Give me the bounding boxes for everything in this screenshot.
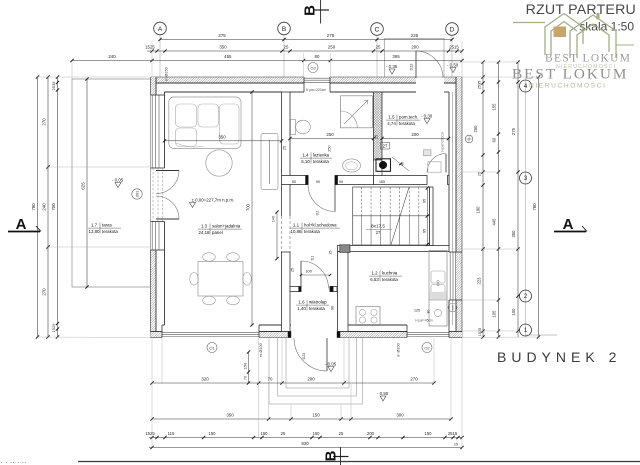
svg-text:350: 350 xyxy=(218,135,226,140)
svg-text:115: 115 xyxy=(168,431,175,436)
svg-text:NIERUCHOMOŚCI: NIERUCHOMOŚCI xyxy=(529,81,607,90)
dim 150/70 entrance xyxy=(248,352,250,383)
exterior wall: top (insulated, hatched) xyxy=(151,77,305,83)
window O3 in top wall xyxy=(304,77,330,79)
svg-text:D2: D2 xyxy=(316,211,320,216)
svg-text:RZUT PARTERU: RZUT PARTERU xyxy=(526,2,636,18)
stair width dim 95/95 xyxy=(426,186,429,189)
right dim chain 3 xyxy=(517,62,519,337)
svg-text:m Ø150: m Ø150 xyxy=(165,67,169,81)
svg-text:80: 80 xyxy=(427,310,431,314)
svg-text:150: 150 xyxy=(425,431,433,436)
svg-text:2515: 2515 xyxy=(448,431,458,436)
door D2 leaf and swing (hall->bathroom) xyxy=(334,185,336,212)
svg-text:190: 190 xyxy=(476,206,481,214)
svg-text:625: 625 xyxy=(81,182,86,190)
stair break line (diagonal) xyxy=(391,188,409,245)
svg-text:25: 25 xyxy=(329,251,333,255)
staircase 8x17,5 xyxy=(353,187,430,245)
svg-text:27: 27 xyxy=(376,230,381,235)
svg-text:H par=45cm: H par=45cm xyxy=(415,319,433,323)
svg-text:25: 25 xyxy=(281,431,286,436)
svg-text:200: 200 xyxy=(367,431,375,436)
svg-text:OB1: OB1 xyxy=(136,191,140,198)
exterior wall: right xyxy=(456,77,462,338)
corner sofa in salon xyxy=(169,97,241,149)
dimension row 3 (top) xyxy=(72,60,462,62)
svg-text:375: 375 xyxy=(218,33,226,38)
terrace dim 625 xyxy=(86,79,88,287)
svg-text:250: 250 xyxy=(328,145,332,151)
svg-text:2535: 2535 xyxy=(51,81,56,91)
svg-text:90: 90 xyxy=(339,180,343,184)
svg-text:taras: taras xyxy=(102,223,113,228)
window label O1 xyxy=(207,343,217,353)
svg-text:240: 240 xyxy=(108,54,116,59)
svg-text:terakota: terakota xyxy=(102,229,118,234)
svg-text:O1: O1 xyxy=(209,345,215,350)
bottom border line xyxy=(78,461,640,463)
svg-text:275: 275 xyxy=(511,127,516,135)
chimney duct wall (crosshatched) xyxy=(374,92,383,160)
svg-text:± 0,00=227,7m n.p.m.: ± 0,00=227,7m n.p.m. xyxy=(192,198,235,203)
svg-text:25: 25 xyxy=(376,45,381,50)
svg-text:terakota: terakota xyxy=(382,277,398,282)
interior wall: bathroom/pom.tech bottom (H1) xyxy=(282,176,309,185)
dimension row 2 (top) xyxy=(147,50,462,52)
svg-text:1525: 1525 xyxy=(145,45,155,50)
svg-text:25: 25 xyxy=(291,268,295,272)
svg-text:300: 300 xyxy=(396,413,404,418)
svg-text:1.3: 1.3 xyxy=(201,224,208,229)
svg-text:46: 46 xyxy=(401,162,405,166)
svg-text:320: 320 xyxy=(201,377,209,382)
svg-text:150: 150 xyxy=(312,413,320,418)
axis markers 1-4 (right) xyxy=(525,80,527,336)
entrance canopy outline (top right) xyxy=(385,39,444,78)
furnace in pom.tech xyxy=(376,159,391,172)
svg-text:350: 350 xyxy=(226,413,234,418)
svg-text:105: 105 xyxy=(492,310,497,318)
svg-text:terakota: terakota xyxy=(309,306,325,311)
section marker B (top) xyxy=(320,0,322,24)
left extension lines xyxy=(36,76,150,78)
svg-text:terakota: terakota xyxy=(399,121,415,126)
dim 46 with leader xyxy=(392,157,409,171)
svg-text:- 0,30: - 0,30 xyxy=(421,114,433,119)
svg-text:BEST LOKUM: BEST LOKUM xyxy=(545,53,631,65)
entrance steps (nested) xyxy=(285,338,287,388)
svg-text:BEST LOKUM: BEST LOKUM xyxy=(512,66,628,83)
toilet in bathroom xyxy=(291,120,296,135)
door jambs, entrance DZ4 xyxy=(288,332,291,338)
svg-text:200: 200 xyxy=(307,377,315,382)
svg-text:8x17,5: 8x17,5 xyxy=(371,224,385,229)
bottom dim row 4 total 930 xyxy=(149,447,462,449)
svg-text:6,10: 6,10 xyxy=(301,159,310,164)
svg-text:250: 250 xyxy=(473,125,478,133)
svg-text:4,74: 4,74 xyxy=(387,121,396,126)
kitchen counter with sink xyxy=(429,251,447,327)
svg-text:1.5: 1.5 xyxy=(388,115,395,120)
svg-text:- 0,50: - 0,50 xyxy=(377,391,389,396)
balcony door OB1 opening (dashed reveal) xyxy=(152,168,154,222)
svg-text:B: B xyxy=(282,26,286,33)
svg-text:780: 780 xyxy=(532,203,537,211)
stair side wall (V4) xyxy=(430,187,434,246)
svg-text:15: 15 xyxy=(454,443,458,447)
svg-text:kuchnia: kuchnia xyxy=(382,271,398,276)
svg-text:1525: 1525 xyxy=(478,328,482,336)
svg-text:hol+kl.schodowa: hol+kl.schodowa xyxy=(304,223,337,228)
door jambs, bathroom door D2 xyxy=(306,176,309,185)
svg-text:275: 275 xyxy=(327,33,335,38)
svg-text:O5: O5 xyxy=(451,305,455,309)
window label OB1 xyxy=(132,189,142,199)
svg-text:O2: O2 xyxy=(424,345,430,350)
svg-text:395: 395 xyxy=(392,54,400,59)
svg-text:90: 90 xyxy=(331,306,335,310)
svg-text:wiatrolap: wiatrolap xyxy=(309,300,327,305)
svg-text:D1: D1 xyxy=(311,256,315,261)
svg-text:150: 150 xyxy=(313,431,321,436)
svg-text:455: 455 xyxy=(224,54,232,59)
svg-text:A: A xyxy=(16,216,27,233)
svg-text:- 0,05: - 0,05 xyxy=(112,178,124,183)
right extension lines xyxy=(448,61,520,63)
salon-hall passage (dashed opening) xyxy=(281,216,283,252)
exterior wall: bottom xyxy=(151,332,163,338)
stair newel column xyxy=(340,245,350,253)
svg-text:1.2: 1.2 xyxy=(371,271,378,276)
terrace outline (1.7 taras) xyxy=(72,79,151,287)
svg-text:25: 25 xyxy=(375,135,379,139)
svg-text:B: B xyxy=(323,450,340,461)
svg-text:780: 780 xyxy=(31,203,36,211)
svg-text:H par=230cm: H par=230cm xyxy=(441,132,445,152)
logo window square (tan) xyxy=(554,27,567,38)
axis marker C (top) xyxy=(371,23,384,36)
svg-text:1.1: 1.1 xyxy=(293,223,300,228)
window O1 in bottom wall xyxy=(162,332,259,334)
bottom dim row 3 xyxy=(149,437,462,439)
svg-text:445: 445 xyxy=(492,218,497,226)
svg-text:DZ2: DZ2 xyxy=(410,64,414,71)
svg-text:140: 140 xyxy=(271,215,276,222)
svg-text:D: D xyxy=(450,26,455,33)
window O5 in right wall (kitchen) xyxy=(449,252,451,300)
svg-text:1.7: 1.7 xyxy=(91,223,98,228)
wall with door D1 (hall/wiatrolap) xyxy=(290,287,301,292)
svg-text:24,18: 24,18 xyxy=(199,230,211,235)
svg-text:O3: O3 xyxy=(310,65,316,70)
svg-text:150: 150 xyxy=(243,362,248,369)
boiler / equipment pom.tech xyxy=(424,150,432,156)
svg-text:700: 700 xyxy=(51,203,56,211)
svg-text:270: 270 xyxy=(42,118,47,126)
svg-text:1.6: 1.6 xyxy=(298,300,305,305)
kitchen stove 4 burners xyxy=(356,307,380,326)
svg-text:155: 155 xyxy=(492,103,497,111)
salon interior dim 700 xyxy=(251,92,253,325)
svg-text:95: 95 xyxy=(422,229,427,233)
window in left wall (lower) xyxy=(151,222,153,251)
svg-text:pom.tech.: pom.tech. xyxy=(399,115,418,120)
pom.tech dim 200 xyxy=(382,138,449,140)
svg-text:m Ø100: m Ø100 xyxy=(397,343,401,357)
interior wall: salon/bathroom (V1) xyxy=(282,92,291,176)
svg-text:1.4: 1.4 xyxy=(302,153,309,158)
svg-text:25: 25 xyxy=(282,146,287,150)
svg-text:skala 1:50: skala 1:50 xyxy=(579,20,634,34)
washbasin in bathroom xyxy=(343,159,361,172)
window in left wall (upper) xyxy=(151,95,153,168)
right dim chain 1 xyxy=(482,62,484,337)
bathroom dim 250 xyxy=(290,138,374,140)
svg-text:200: 200 xyxy=(411,132,419,137)
window label O2 xyxy=(422,343,432,353)
svg-text:- 0,35: - 0,35 xyxy=(386,64,398,69)
svg-text:25: 25 xyxy=(478,172,482,176)
svg-text:250: 250 xyxy=(326,132,334,137)
exterior wall: left xyxy=(151,77,157,95)
axis dim line A-B-C-D xyxy=(160,39,452,41)
svg-text:250: 250 xyxy=(328,45,336,50)
svg-text:150: 150 xyxy=(261,431,269,436)
extension lines top xyxy=(71,62,73,79)
window O2 in bottom wall xyxy=(407,332,449,334)
svg-text:80: 80 xyxy=(315,54,320,59)
svg-text:70: 70 xyxy=(268,377,273,382)
svg-text:terakota: terakota xyxy=(304,229,320,234)
axis marker A (top) xyxy=(154,22,167,35)
svg-text:lazienka: lazienka xyxy=(313,153,330,158)
logo house outlines (green) xyxy=(513,13,634,58)
axis marker B (top) xyxy=(278,22,291,35)
svg-text:2515: 2515 xyxy=(449,45,459,50)
svg-text:panel: panel xyxy=(212,230,223,235)
left dim chain 270/240/270 xyxy=(47,77,49,337)
svg-text:27: 27 xyxy=(383,144,388,149)
bottom dim row 2 xyxy=(152,418,451,420)
svg-text:240: 240 xyxy=(42,203,47,211)
salon interior dim 350 xyxy=(165,140,282,142)
svg-text:rs Ø100: rs Ø100 xyxy=(259,343,263,357)
window O3 label circle xyxy=(308,63,318,73)
passage dim 140 xyxy=(276,212,278,259)
right dim chain 2 xyxy=(498,62,500,337)
svg-text:10,86: 10,86 xyxy=(291,229,303,234)
svg-text:225: 225 xyxy=(411,33,419,38)
svg-text:350: 350 xyxy=(219,45,227,50)
axis marker D (top) xyxy=(446,23,459,36)
bottom extension lines xyxy=(151,338,153,448)
svg-text:165: 165 xyxy=(379,180,385,184)
svg-text:270: 270 xyxy=(42,288,47,296)
svg-text:salon+jadalnia: salon+jadalnia xyxy=(212,224,241,229)
right dim chain total 780 xyxy=(538,77,540,337)
duct vent label 27 xyxy=(381,143,390,150)
svg-text:70: 70 xyxy=(244,376,248,380)
window label O5 xyxy=(448,303,457,312)
interior wall: salon lower (V2) xyxy=(282,252,291,332)
svg-text:A: A xyxy=(563,216,574,233)
door to pom.tech leaf and swing xyxy=(445,154,447,173)
floor drain symbol xyxy=(465,135,473,143)
svg-text:13,80: 13,80 xyxy=(89,229,101,234)
left dim chain 2535/700/1325 xyxy=(57,77,59,337)
wardrobe in salon xyxy=(261,134,278,190)
svg-text:930: 930 xyxy=(301,441,309,446)
svg-text:25: 25 xyxy=(284,45,289,50)
svg-text:H par=220cm: H par=220cm xyxy=(306,88,327,92)
svg-text:25: 25 xyxy=(339,431,344,436)
dining table with chairs xyxy=(198,262,243,297)
exterior door DZ2 leaf and swing (top) xyxy=(415,51,417,78)
svg-text:100: 100 xyxy=(305,269,312,274)
door D1 leaf and swing (wiatrolap->hall) xyxy=(300,261,302,289)
left dim chain total 780 xyxy=(37,77,39,337)
svg-text:terakota: terakota xyxy=(313,159,329,164)
svg-text:125: 125 xyxy=(414,309,420,313)
svg-text:223: 223 xyxy=(477,277,482,285)
svg-text:1525: 1525 xyxy=(145,431,155,436)
round table in salon xyxy=(206,150,232,176)
svg-text:1,40: 1,40 xyxy=(297,306,306,311)
svg-text:700: 700 xyxy=(246,203,251,211)
section marker B (bottom) xyxy=(340,447,342,465)
svg-text:▪·▪·▪▪·▪·▪▪: ▪·▪·▪▪·▪·▪▪ xyxy=(1,461,27,465)
svg-text:90: 90 xyxy=(316,180,320,184)
interior wall: kitchen top (H4) xyxy=(338,246,450,252)
svg-text:2535: 2535 xyxy=(478,81,482,89)
svg-text:50: 50 xyxy=(292,180,296,184)
svg-text:B: B xyxy=(302,5,319,16)
svg-text:A: A xyxy=(158,26,163,33)
svg-text:200: 200 xyxy=(411,45,419,50)
svg-text:150: 150 xyxy=(209,431,217,436)
exterior door DZ4 leaf and swing (entrance) xyxy=(326,338,328,371)
bottom dim row 1 xyxy=(152,382,434,384)
svg-text:- 0,05: - 0,05 xyxy=(325,362,337,367)
svg-text:C: C xyxy=(375,26,380,33)
svg-text:6,53: 6,53 xyxy=(370,277,379,282)
svg-text:60: 60 xyxy=(492,137,497,142)
svg-text:DZ4: DZ4 xyxy=(302,353,306,360)
svg-text:95: 95 xyxy=(422,199,427,203)
svg-text:100: 100 xyxy=(511,308,516,316)
svg-text:350: 350 xyxy=(511,230,516,238)
svg-text:270: 270 xyxy=(410,377,418,382)
svg-text:1325: 1325 xyxy=(51,323,56,333)
wall stub under duct xyxy=(374,160,383,176)
balcony double door leaves + swing arcs xyxy=(156,170,179,172)
svg-text:- 0,50: - 0,50 xyxy=(447,63,459,68)
svg-text:BUDYNEK 2: BUDYNEK 2 xyxy=(497,349,621,365)
interior wall: wiatrolap/kitchen (V3) xyxy=(338,252,349,332)
shower cabin xyxy=(341,96,373,128)
